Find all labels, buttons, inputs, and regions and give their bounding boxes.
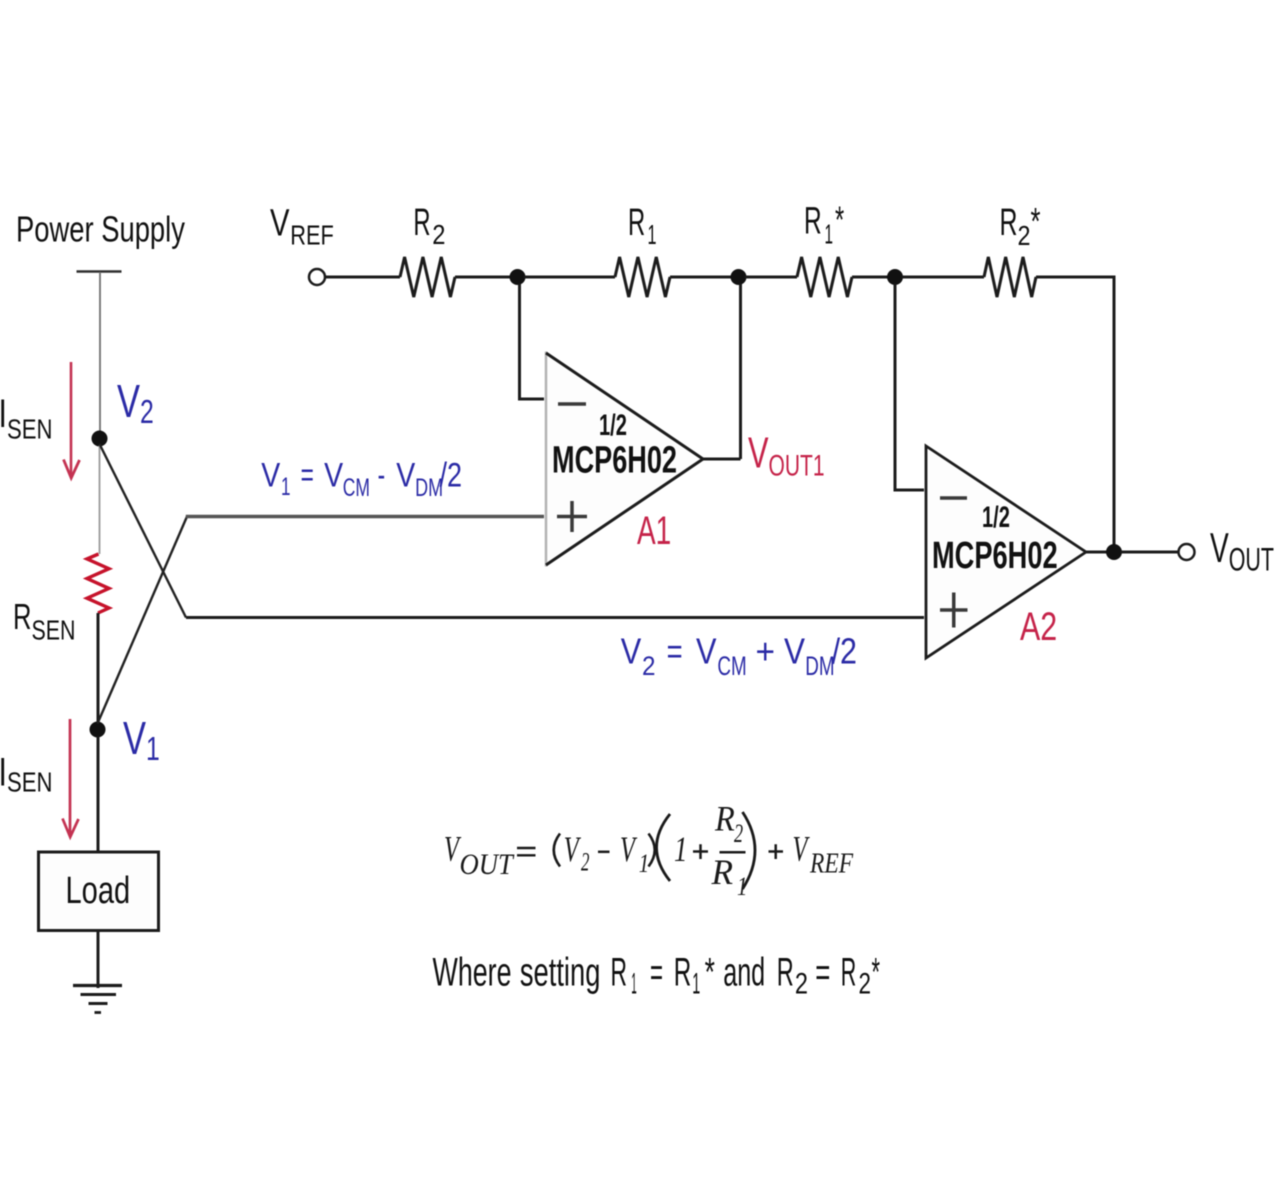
svg-text:1: 1 — [281, 473, 291, 501]
svg-text:V: V — [784, 631, 805, 672]
V1 equation label — [261, 457, 462, 502]
svg-text:and: and — [723, 951, 765, 995]
svg-text:*: * — [835, 200, 844, 242]
wire V2 node to A2 non-inverting input — [100, 444, 187, 618]
A2 designator label — [1020, 604, 1057, 649]
svg-text:1/2: 1/2 — [982, 501, 1010, 534]
svg-text:V: V — [261, 457, 280, 495]
svg-text:*: * — [872, 951, 881, 995]
svg-text:OUT: OUT — [460, 849, 515, 882]
svg-text:=: = — [301, 457, 314, 495]
svg-text:R: R — [1000, 202, 1018, 244]
wire R2 to node A — [455, 276, 511, 279]
svg-text:R: R — [628, 202, 645, 244]
svg-text:V: V — [621, 631, 642, 672]
svg-text:-: - — [378, 457, 386, 495]
svg-text:V: V — [396, 457, 415, 495]
node V1 — [90, 722, 106, 738]
node C — [887, 269, 903, 285]
svg-text:*: * — [705, 951, 715, 995]
formula VOUT equation — [444, 799, 853, 902]
svg-text:REF: REF — [290, 220, 334, 251]
ISEN label upper — [1, 400, 4, 428]
wire feedback node A to A1 inverting input — [520, 284, 545, 399]
formula minus sign — [598, 851, 610, 854]
svg-text:V: V — [793, 829, 810, 869]
formula fraction bar — [720, 851, 746, 854]
formula fraction R2 numerator — [714, 799, 735, 839]
wire VREF to R2 — [325, 276, 400, 279]
wire node B to R1* — [745, 276, 797, 279]
formula big close paren — [743, 812, 756, 889]
svg-text:A1: A1 — [637, 509, 671, 553]
formula fraction R1 denominator — [711, 852, 734, 892]
op-amp A2 body — [926, 446, 1086, 658]
VREF terminal — [309, 269, 325, 285]
formula 1 term — [674, 829, 687, 869]
formula V_REF term — [793, 829, 810, 869]
ISEN arrow lower — [63, 719, 79, 837]
Power Supply label — [16, 209, 185, 250]
svg-text:1: 1 — [825, 219, 834, 250]
wire power supply to node V2 — [99, 272, 101, 432]
svg-text:R: R — [711, 852, 734, 892]
svg-text:SEN: SEN — [32, 615, 76, 646]
wire A1 output to node B — [703, 284, 741, 459]
resistor R1 — [615, 257, 670, 297]
svg-text:V: V — [564, 829, 581, 869]
svg-text:Load: Load — [66, 869, 131, 912]
R1* label — [804, 200, 844, 250]
formula equals sign — [517, 848, 536, 855]
svg-text:2: 2 — [581, 847, 589, 877]
svg-text:V: V — [696, 631, 717, 672]
svg-text:=: = — [815, 951, 830, 995]
svg-text:R: R — [611, 951, 628, 995]
formula V_OUT term — [444, 829, 461, 869]
svg-text:MCP6H02: MCP6H02 — [932, 535, 1058, 578]
svg-text:2: 2 — [795, 968, 808, 1001]
svg-text:R: R — [714, 799, 735, 839]
svg-text:CM: CM — [717, 651, 746, 681]
svg-text:Power Supply: Power Supply — [16, 209, 185, 250]
node VOUT — [1106, 544, 1122, 560]
RSEN label — [13, 596, 76, 646]
svg-text:/2: /2 — [440, 457, 463, 495]
svg-text:REF: REF — [809, 848, 853, 879]
svg-text:V: V — [620, 829, 637, 869]
node V2 — [92, 431, 108, 447]
svg-text:=: = — [650, 951, 663, 995]
A1 inverting pin marker — [558, 402, 586, 406]
svg-text:+: + — [756, 631, 776, 672]
resistor R2 — [400, 257, 455, 297]
A1 non-inverting pin marker — [557, 501, 587, 532]
op-amp A1 body — [546, 353, 703, 565]
svg-text:DM: DM — [805, 651, 834, 681]
svg-text:R: R — [804, 201, 822, 243]
VOUT1 label — [748, 429, 825, 482]
A2 MCP6H02 label — [932, 535, 1058, 578]
V2 label — [117, 375, 154, 431]
ground — [73, 984, 122, 987]
svg-text:R: R — [413, 202, 430, 244]
wire node V2 to RSEN — [99, 446, 101, 555]
A1 1/2 label — [599, 409, 627, 442]
R1 label — [628, 202, 657, 250]
ISEN arrow upper — [70, 362, 73, 476]
svg-text:setting: setting — [520, 951, 601, 995]
resistor R1* — [797, 257, 852, 297]
svg-text:SEN: SEN — [7, 414, 52, 445]
ISEN label lower — [1, 758, 4, 786]
svg-text:V: V — [270, 203, 290, 245]
svg-text:R: R — [674, 951, 692, 995]
node A — [510, 269, 526, 285]
wire node A to R1 — [524, 276, 615, 279]
svg-text:2: 2 — [642, 651, 656, 681]
svg-text:R: R — [841, 951, 857, 995]
A2 1/2 label — [982, 501, 1010, 534]
svg-text:/2: /2 — [832, 631, 857, 672]
resistor R2* — [984, 257, 1036, 297]
A2 non-inverting pin marker — [940, 593, 968, 628]
wire R1 to node B — [670, 276, 732, 279]
svg-text:2: 2 — [859, 968, 872, 1001]
Load box — [39, 852, 159, 931]
wire Load to ground — [97, 931, 100, 988]
svg-text:MCP6H02: MCP6H02 — [552, 438, 677, 481]
svg-text:2: 2 — [1018, 220, 1031, 251]
svg-text:2: 2 — [432, 219, 445, 250]
svg-text:*: * — [1031, 201, 1041, 243]
A2 inverting pin marker — [940, 496, 967, 500]
wire A2 output to VOUT node — [1086, 551, 1107, 554]
svg-text:1: 1 — [692, 968, 700, 1001]
formula plus sign 2 — [769, 844, 784, 859]
svg-text:Where: Where — [433, 951, 512, 995]
VOUT label — [1210, 524, 1274, 577]
svg-text:2: 2 — [734, 819, 743, 848]
formula plus sign 1 — [693, 844, 708, 859]
wire VOUT node to terminal — [1121, 551, 1178, 554]
V1 label — [123, 712, 160, 768]
VREF label — [270, 203, 334, 251]
svg-text:=: = — [667, 631, 683, 672]
formula big open paren — [657, 814, 671, 881]
wire V1 node to A1 non-inverting input — [98, 517, 188, 724]
formula V2 term — [564, 829, 581, 869]
formula open paren — [554, 834, 560, 867]
svg-text:CM: CM — [343, 474, 370, 502]
formula close paren — [649, 834, 655, 867]
svg-text:1: 1 — [648, 219, 657, 250]
node B — [731, 269, 747, 285]
svg-text:SEN: SEN — [7, 767, 52, 798]
V2 equation label — [621, 631, 857, 682]
svg-text:1: 1 — [631, 968, 637, 1001]
resistor RSEN — [87, 554, 109, 613]
svg-text:V: V — [324, 457, 343, 495]
svg-text:R: R — [13, 596, 32, 637]
A1 MCP6H02 label — [552, 438, 677, 481]
wire R1* to node C — [852, 276, 888, 279]
svg-text:R: R — [777, 951, 794, 995]
formula V1 term — [620, 829, 637, 869]
wire RSEN to node V1 — [97, 613, 100, 723]
power supply terminal bar — [77, 270, 122, 273]
svg-text:1: 1 — [639, 850, 649, 879]
A1 designator label — [637, 509, 671, 553]
wire R2* to VOUT node — [1036, 277, 1114, 545]
svg-text:A2: A2 — [1020, 604, 1057, 649]
note Where setting — [433, 951, 881, 1001]
wire node C to R2* — [902, 276, 984, 279]
R2 label — [413, 202, 445, 250]
R2* label — [1000, 201, 1041, 251]
wire node V1 to Load — [97, 737, 100, 852]
svg-text:1: 1 — [674, 829, 687, 869]
wire feedback node C to A2 inverting input — [895, 284, 924, 490]
